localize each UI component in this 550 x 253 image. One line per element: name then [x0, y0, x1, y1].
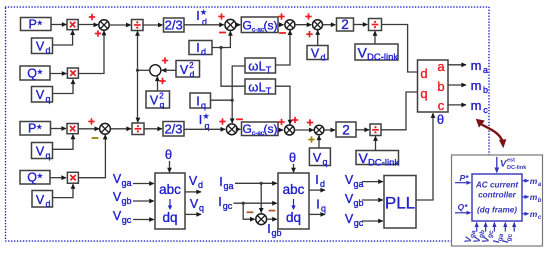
svg-text:V: V	[36, 88, 45, 102]
multiplier M1 (P* x Vd)	[67, 20, 78, 30]
wire D4 to modulator q input	[381, 92, 418, 130]
gain block 2 (row1)	[337, 18, 354, 31]
wire VDC-link to D2	[374, 31, 376, 44]
svg-text:c: c	[483, 105, 488, 115]
svg-text:DC-link: DC-link	[368, 158, 399, 169]
svg-text:θ: θ	[437, 112, 444, 127]
wire D3 to gain 2/3 (row2)	[144, 128, 162, 130]
divider D3 (row2)	[132, 123, 144, 135]
red curved arrow linking diagram to inset	[482, 125, 503, 141]
wire Vq to multiplier M2	[53, 80, 74, 94]
svg-text:T: T	[266, 86, 272, 96]
svg-text:AC current: AC current	[475, 181, 519, 190]
block VDC-link (row2)	[356, 151, 399, 165]
wire upper wLT to S3	[276, 30, 291, 65]
svg-text:(dq frame): (dq frame)	[477, 206, 517, 215]
sign + (S4 feedforward)	[306, 33, 312, 35]
svg-text:controller: controller	[478, 191, 517, 200]
wire output ma	[448, 64, 466, 66]
block Q* (row2)	[20, 171, 50, 185]
wire Vd to multiplier M4	[53, 184, 74, 197]
svg-text:V: V	[36, 145, 45, 159]
svg-text:G: G	[243, 18, 252, 32]
gain block 2/3 (row2)	[163, 122, 184, 137]
svg-text:ga: ga	[353, 179, 363, 189]
wire M3 to summing junction S5	[78, 128, 99, 130]
multiplier M3 (P* x Vq)	[67, 124, 78, 134]
svg-text:θ: θ	[289, 150, 296, 165]
wire S5 to divider D3	[110, 128, 131, 130]
sign + (S5 upper input)	[88, 121, 94, 123]
transform block abc-dq 1 (voltages)	[155, 173, 185, 229]
sign - (S5 lower input, olive)	[92, 137, 99, 139]
wire S6 to compensator Gc2	[237, 128, 240, 130]
inset bottom input arrows	[476, 226, 478, 232]
divider D2 (row1)	[369, 19, 382, 31]
svg-text:I: I	[196, 95, 199, 109]
wire Iq branch to S6 feedback	[231, 100, 233, 123]
wire Vq2 to SV	[157, 77, 159, 92]
wire Q* to multiplier M4	[50, 177, 66, 179]
svg-text:abc: abc	[159, 182, 181, 197]
wire Id branch to lower wLT	[221, 48, 245, 87]
svg-text:d: d	[320, 53, 325, 63]
svg-text:abc: abc	[283, 182, 305, 197]
svg-text:d: d	[420, 66, 427, 81]
svg-text:q: q	[199, 203, 204, 213]
wire Vga to box1	[133, 183, 154, 185]
wire S3 to summing junction S4	[295, 24, 311, 26]
block Vd (row1)	[32, 38, 53, 54]
svg-text:V: V	[36, 193, 45, 207]
compensator block Gc-ac(s) (row2)	[242, 122, 279, 136]
wire Vgc to box1	[133, 219, 154, 221]
summing junction S2 (Id* - Id)	[225, 19, 236, 30]
wire Q* to multiplier M2	[50, 73, 67, 75]
summing junction S4	[313, 20, 323, 30]
wire D1 to gain 2/3 (row1)	[143, 24, 163, 26]
inset output ma	[522, 180, 526, 182]
svg-text:b: b	[483, 85, 488, 95]
svg-text:d: d	[201, 47, 206, 57]
svg-text:d: d	[320, 179, 325, 189]
svg-text:(s): (s)	[264, 122, 278, 136]
wire Vgc to PLL	[362, 220, 383, 222]
svg-text:q: q	[45, 151, 50, 161]
inset output mb	[522, 196, 526, 198]
wire SV to dividers D1 and D3	[138, 69, 150, 71]
compensator block Gc-ac(s) (row1)	[241, 17, 278, 33]
junction node on Iq wire	[231, 99, 234, 102]
sign + (S8 feedforward, olive)	[308, 139, 314, 141]
wire P* to multiplier M1	[51, 24, 67, 26]
block P* (row2)	[20, 122, 51, 136]
svg-text:PLL: PLL	[385, 194, 415, 213]
wire 2/3 to summing junction S2	[184, 24, 224, 26]
wire Gc2 to summing junction S7	[278, 129, 283, 131]
svg-text:m: m	[530, 209, 538, 219]
multiplier M2 (Q* x Vq)	[67, 68, 78, 78]
inset output mc	[522, 213, 526, 215]
svg-text:dq: dq	[286, 210, 301, 225]
block Vq squared	[146, 91, 170, 108]
wire box1 Vq output	[185, 213, 201, 215]
svg-text:q: q	[45, 94, 50, 104]
svg-text:ga: ga	[121, 178, 131, 188]
svg-text:V: V	[500, 159, 507, 170]
svg-text:V: V	[190, 197, 199, 211]
wire theta into box2	[293, 164, 295, 172]
svg-text:I: I	[219, 175, 222, 189]
wire Vd to S4	[317, 30, 319, 45]
gain block 2/3 (row1)	[164, 18, 185, 32]
svg-text:G: G	[243, 122, 252, 136]
block Vq feedforward (row2)	[309, 148, 330, 166]
wire box2 Id output	[309, 189, 325, 191]
svg-text:a: a	[483, 65, 488, 75]
svg-text:m: m	[471, 98, 482, 113]
sign + (S8 input)	[307, 122, 313, 124]
block Vd feedforward (row1)	[307, 46, 328, 60]
junction node SV output	[136, 69, 139, 72]
wire Id to S2 feedback	[212, 31, 230, 47]
svg-text:V: V	[150, 94, 159, 108]
wire Igc branch down to SI	[243, 203, 254, 219]
wire D2 to modulator d input	[382, 25, 418, 73]
svg-text:m: m	[530, 176, 538, 186]
summing junction S6 (Iq* - Iq)	[226, 124, 237, 135]
wire Vgb to PLL	[362, 199, 383, 201]
wire S1 to divider D1	[109, 24, 130, 26]
wire 2/3 to summing junction S6	[184, 128, 225, 130]
wire SI to box2	[267, 218, 277, 220]
wire output mc	[448, 104, 466, 106]
block Q* (row1)	[20, 66, 50, 80]
svg-text:2: 2	[342, 123, 350, 138]
block PLL	[384, 176, 416, 229]
wire S8 to gain 2 (row2)	[324, 129, 335, 131]
svg-text:I: I	[315, 173, 318, 187]
wire M2 to S1 lower input	[78, 31, 104, 74]
wire gain2 to divider D4	[356, 129, 369, 131]
svg-text:2/3: 2/3	[165, 18, 183, 33]
svg-text:d: d	[198, 180, 203, 190]
svg-text:c: c	[438, 98, 445, 113]
wire Vgb to box1	[133, 200, 154, 202]
sign + (S1 lower input)	[95, 33, 101, 35]
svg-text:d: d	[45, 199, 50, 209]
svg-text:I: I	[218, 195, 221, 209]
sign - (SI from Igc, brown)	[269, 210, 276, 212]
wire theta into box1	[169, 161, 171, 172]
svg-text:2: 2	[341, 17, 349, 32]
svg-text:V: V	[345, 212, 354, 226]
svg-text:V: V	[311, 47, 320, 61]
svg-text:m: m	[471, 58, 482, 73]
sign - (S6 feedback)	[236, 118, 243, 120]
sign + (SV from Vd2)	[162, 60, 168, 62]
block Iq (measured)	[190, 93, 211, 108]
svg-text:gc: gc	[223, 201, 233, 211]
divider D4 (row2)	[370, 124, 381, 136]
block Vd squared	[176, 61, 200, 78]
sign + (S7 input)	[278, 121, 284, 123]
svg-text:est: est	[507, 158, 515, 164]
sign - (SI from Iga, brown)	[247, 211, 254, 213]
svg-text:Q*: Q*	[458, 202, 469, 212]
summing junction S7	[285, 125, 295, 135]
svg-text:V: V	[113, 209, 122, 223]
svg-text:V: V	[189, 174, 198, 188]
wire Iga to box2	[235, 182, 277, 184]
block Vd (row2)	[32, 191, 53, 208]
svg-text:V: V	[36, 40, 45, 54]
svg-text:gb: gb	[121, 196, 131, 206]
svg-text:T: T	[266, 65, 272, 75]
transform block abc-dq 2 (currents)	[278, 173, 309, 229]
divider D1	[132, 20, 144, 31]
svg-text:V: V	[113, 190, 122, 204]
block Id (measured)	[189, 41, 212, 55]
svg-text:V: V	[345, 192, 354, 206]
sign + (S3 input)	[278, 16, 284, 18]
wire Vga to PLL	[362, 181, 383, 183]
svg-text:d: d	[45, 46, 50, 56]
sign - (S2 feedback)	[219, 32, 226, 34]
inset inner block AC current controller	[472, 174, 522, 221]
wire PLL theta to modulator	[416, 113, 433, 200]
sign + (S6 input)	[219, 121, 225, 123]
inset slanted labels Vga Vgb Vgc Iga Igc	[462, 228, 477, 245]
wire Vq to multiplier M3	[53, 135, 74, 150]
svg-text:a: a	[437, 59, 445, 74]
junction node Igc branch	[242, 202, 245, 205]
block wLT lower (Id coupling)	[245, 79, 276, 94]
summing junction S1	[99, 20, 109, 30]
svg-text:gb: gb	[271, 228, 281, 238]
svg-text:I: I	[196, 9, 199, 23]
svg-text:dq: dq	[162, 210, 177, 225]
block VDC-link (row1)	[355, 44, 398, 60]
svg-text:θ: θ	[165, 147, 172, 162]
svg-text:I: I	[196, 41, 199, 55]
svg-text:gc: gc	[122, 215, 132, 225]
sign + (S4 input)	[305, 16, 311, 18]
sign + (S1 upper input)	[89, 16, 95, 18]
svg-text:★: ★	[200, 9, 206, 17]
wire Vq to S8	[318, 136, 320, 149]
svg-text:DC-link: DC-link	[507, 165, 527, 171]
svg-text:m: m	[471, 78, 482, 93]
summing junction S5	[100, 123, 111, 134]
wire box1 Vd output	[185, 191, 201, 193]
inset input VDC-link est	[496, 157, 498, 169]
wire Igc to box2	[234, 202, 277, 204]
modulator block dq to abc	[418, 60, 449, 112]
summing junction S3	[285, 20, 295, 30]
wire S7 to summing junction S8	[295, 129, 314, 131]
svg-text:I: I	[199, 113, 202, 127]
summing junction SI (Igb = -Iga-Igc)	[256, 214, 267, 225]
svg-text:q: q	[322, 157, 327, 167]
wire Vd2 to SV	[162, 69, 176, 71]
svg-text:b: b	[538, 198, 542, 204]
junction node on Id wire	[219, 46, 222, 49]
svg-text:q: q	[160, 100, 165, 110]
svg-text:b: b	[437, 79, 444, 94]
wire Iga branch down to SI	[260, 183, 262, 212]
wire Iq to upper wLT	[211, 66, 246, 100]
sign + (S7 decoupling)	[292, 119, 298, 121]
wire box2 Iq output	[309, 213, 325, 215]
sign + (SV from Vq2)	[159, 80, 165, 82]
wire output mb	[448, 84, 466, 86]
inset panel background	[452, 155, 543, 246]
wire gain2 to divider D2	[354, 24, 368, 26]
summing junction S8	[314, 125, 324, 135]
svg-text:q: q	[201, 101, 206, 111]
multiplier M4 (Q* x Vd)	[67, 172, 78, 183]
svg-text:★: ★	[203, 113, 209, 121]
wire VDC-link to D4	[375, 136, 377, 150]
svg-text:q: q	[420, 86, 427, 101]
block P* (d-axis reference)	[21, 18, 52, 31]
svg-text:ωL: ωL	[248, 59, 265, 74]
wire S4 to gain 2 (row1)	[323, 24, 336, 26]
svg-text:ga: ga	[223, 181, 233, 191]
svg-text:d: d	[202, 17, 207, 27]
svg-text:V: V	[180, 63, 189, 77]
svg-text:2/3: 2/3	[164, 122, 182, 137]
wire P* to multiplier M3	[51, 128, 67, 130]
sign + (S2 input)	[218, 16, 224, 18]
svg-text:V: V	[313, 151, 322, 165]
svg-text:(s): (s)	[264, 18, 278, 32]
svg-text:ωL: ωL	[248, 80, 265, 95]
block Vq (row1)	[32, 87, 53, 103]
svg-text:q: q	[321, 204, 326, 214]
wire S2 to compensator Gc1	[236, 24, 240, 26]
sign - (S3 decoupling)	[279, 32, 286, 34]
svg-text:d: d	[190, 69, 195, 79]
svg-text:gc: gc	[354, 218, 364, 228]
svg-text:V: V	[358, 45, 368, 61]
wire Vd to multiplier M1	[53, 31, 73, 46]
svg-text:I: I	[316, 198, 319, 212]
wire M1 to summing junction S1	[78, 24, 98, 26]
svg-text:V: V	[113, 172, 122, 186]
svg-text:V: V	[359, 150, 369, 166]
svg-text:m: m	[530, 192, 538, 202]
svg-text:I: I	[267, 222, 270, 236]
svg-text:V: V	[345, 173, 354, 187]
block wLT upper (Iq coupling)	[245, 58, 276, 73]
wire Gc1 to summing junction S3	[278, 24, 284, 26]
wire lower wLT to S7	[276, 86, 291, 124]
wire M4 to S5 lower input	[78, 135, 105, 178]
block Vq (row2)	[32, 143, 53, 159]
junction node Iga branch	[260, 182, 263, 185]
gain block 2 (row2)	[336, 122, 356, 137]
summing circle SV (Vd^2+Vq^2)	[150, 65, 161, 76]
svg-text:DC-link: DC-link	[367, 52, 398, 63]
